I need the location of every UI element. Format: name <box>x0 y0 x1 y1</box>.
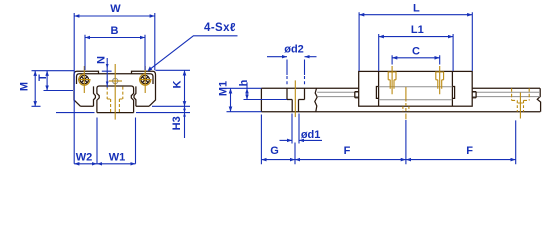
svg-text:T: T <box>37 74 49 81</box>
svg-text:K: K <box>172 80 184 88</box>
svg-text:W: W <box>110 3 121 15</box>
svg-text:M1: M1 <box>218 81 230 96</box>
svg-text:N: N <box>96 56 108 64</box>
svg-text:W2: W2 <box>76 152 93 164</box>
svg-text:F: F <box>466 145 473 157</box>
svg-text:ød2: ød2 <box>284 43 304 55</box>
svg-text:h: h <box>238 79 250 86</box>
svg-text:4-Sxℓ: 4-Sxℓ <box>204 22 236 34</box>
svg-text:G: G <box>270 145 279 157</box>
svg-text:H3: H3 <box>171 116 183 130</box>
svg-text:C: C <box>412 45 420 57</box>
svg-text:M: M <box>19 82 31 91</box>
svg-text:L: L <box>413 2 420 14</box>
svg-text:ød1: ød1 <box>301 129 321 141</box>
svg-text:F: F <box>344 145 351 157</box>
svg-text:B: B <box>111 25 119 37</box>
svg-text:W1: W1 <box>109 152 126 164</box>
svg-text:L1: L1 <box>411 24 424 36</box>
